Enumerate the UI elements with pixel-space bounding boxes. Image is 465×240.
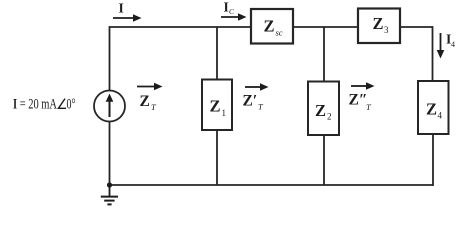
svg-text:Z′: Z′ [243,93,258,110]
svg-text:0°: 0° [67,97,76,113]
svg-text:2: 2 [327,112,332,122]
svg-text:Z: Z [210,97,221,116]
svg-text:sc: sc [276,28,283,38]
impedance Zsc (top series box) [251,9,293,44]
ground [101,182,118,204]
current arrow I (top left) [113,1,142,22]
wire Z1 top lead [216,27,218,80]
current arrow I4 (right) [437,32,455,59]
wire left vertical below source [109,122,111,186]
svg-text:Z: Z [264,17,275,36]
svg-text:1: 1 [222,108,227,118]
wire top rail middle segment [293,26,358,28]
wire Z1 bottom lead [216,130,218,185]
svg-text:Z: Z [315,101,326,120]
wire Z2 top lead [323,27,325,82]
svg-text:Z″: Z″ [349,92,368,109]
svg-text:Z: Z [140,93,150,110]
svg-text:Z: Z [426,100,437,119]
impedance Z2 [308,82,339,136]
svg-text:4: 4 [438,111,443,121]
wire Z2 bottom lead [323,135,325,185]
label Z''T with arrow [349,82,375,112]
svg-text:I = 20 mA: I = 20 mA [13,97,57,113]
label source value I = 20 mA angle 0 deg [13,97,76,113]
wire Z4 bottom lead [432,134,434,186]
label ZT with arrow [137,83,163,112]
svg-text:4: 4 [451,40,455,49]
svg-text:3: 3 [384,25,389,35]
wire bottom rail [109,184,433,186]
impedance Z1 [202,80,232,131]
current source I [94,91,125,122]
current arrow IC [221,0,247,21]
wire top rail right segment [400,26,433,28]
impedance Z3 [358,9,400,44]
wire left vertical above source [109,26,111,90]
svg-text:Z: Z [373,14,384,33]
svg-text:I: I [119,1,124,16]
label Z'T with arrow [243,83,269,111]
wire right drop to Z4 [432,26,434,81]
svg-text:I: I [224,0,229,15]
impedance Z4 [418,81,449,134]
wire top rail left segment [110,26,252,28]
